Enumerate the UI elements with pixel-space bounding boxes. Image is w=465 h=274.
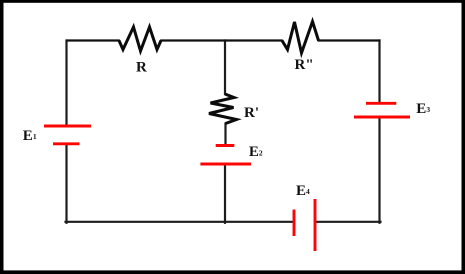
- svg-text:R': R': [244, 105, 259, 121]
- svg-text:R": R": [295, 57, 314, 73]
- svg-text:R: R: [136, 59, 147, 75]
